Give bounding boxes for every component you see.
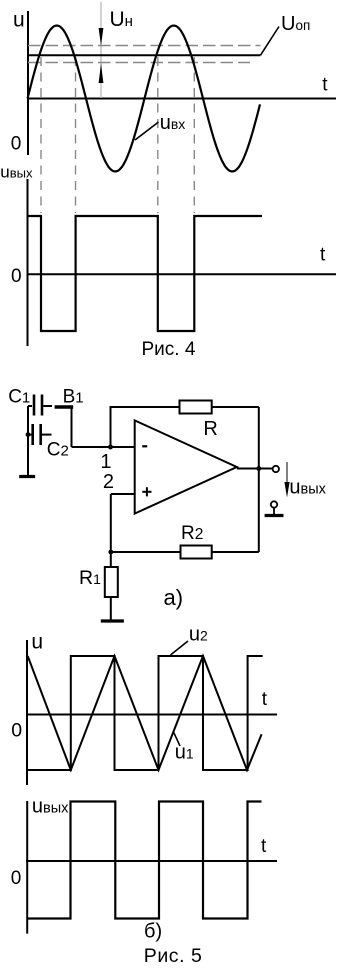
svg-text:C1: C1 [8,387,30,408]
svg-text:0: 0 [11,134,22,155]
svg-text:Рис. 4: Рис. 4 [142,339,196,360]
svg-text:R2: R2 [181,523,203,544]
svg-text:0: 0 [11,868,22,889]
svg-text:t: t [261,836,267,857]
svg-text:u: u [13,9,25,32]
svg-text:u1: u1 [175,742,194,764]
svg-text:u: u [31,631,43,654]
svg-text:2: 2 [103,471,114,493]
svg-text:1: 1 [100,451,111,473]
svg-text:R1: R1 [79,567,101,589]
svg-text:uвых: uвых [289,477,326,499]
svg-text:t: t [322,74,328,95]
svg-text:C2: C2 [47,440,69,461]
svg-text:t: t [262,689,268,710]
svg-text:Рис. 5: Рис. 5 [144,945,203,967]
svg-text:u2: u2 [189,624,208,646]
svg-text:R: R [203,418,217,440]
svg-text:б): б) [144,921,162,943]
svg-text:uвых: uвых [0,163,33,182]
svg-text:0: 0 [11,720,22,742]
svg-text:0: 0 [11,266,22,287]
svg-text:а): а) [164,585,184,610]
svg-text:t: t [320,244,326,265]
svg-text:uвх: uвх [160,112,186,134]
svg-text:Uн: Uн [110,8,133,31]
svg-text:uвых: uвых [32,795,69,817]
svg-text:Uоп: Uоп [281,13,310,35]
svg-text:B1: B1 [63,386,84,407]
